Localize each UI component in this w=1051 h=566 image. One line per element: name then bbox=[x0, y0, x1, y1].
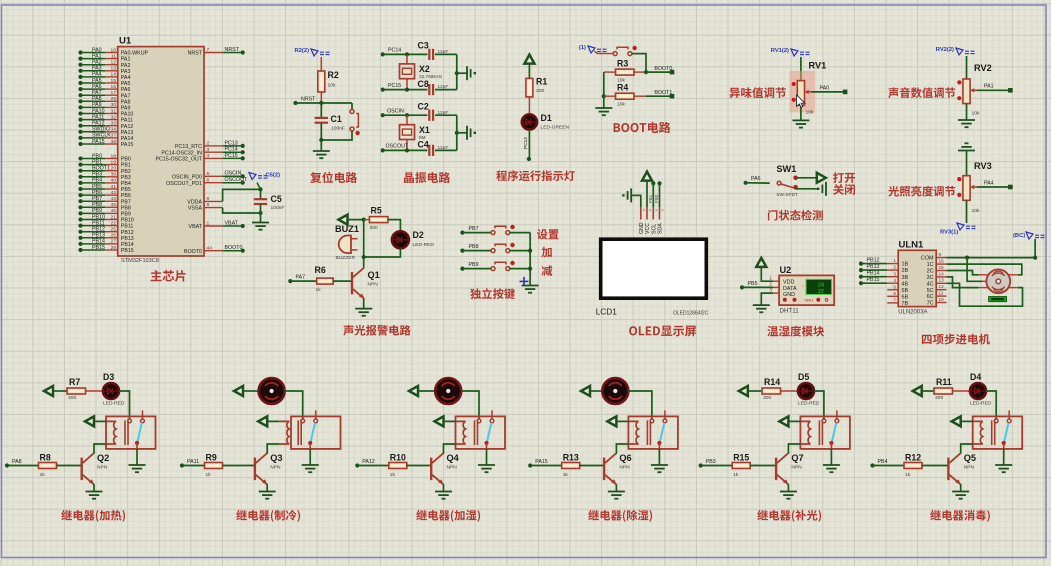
junction X1 bottom bbox=[405, 148, 409, 152]
wire GND bbox=[761, 293, 773, 305]
ground relay 继电器(除湿) bbox=[651, 465, 668, 472]
svg-text:PA15: PA15 bbox=[121, 142, 134, 148]
wire motor to relay bbox=[285, 391, 303, 419]
resistor R1 bbox=[526, 78, 533, 97]
wire ULN1 pin 2B stub bbox=[887, 269, 898, 271]
svg-text:R10: R10 bbox=[390, 452, 406, 462]
svg-text:PA0: PA0 bbox=[820, 85, 830, 91]
wire coil to collector bbox=[616, 444, 628, 454]
ground Q1 bbox=[355, 309, 372, 316]
wire VSSA to C5 bottom bbox=[223, 208, 261, 213]
wire LED to relay bbox=[119, 391, 130, 419]
ground reset circuit bbox=[313, 151, 330, 158]
svg-text:DATA: DATA bbox=[783, 286, 797, 292]
svg-text:PC15: PC15 bbox=[225, 153, 238, 159]
svg-text:PB6: PB6 bbox=[92, 190, 102, 196]
label 异味值调节 (odour adjust) bbox=[730, 87, 786, 98]
svg-text:4: 4 bbox=[893, 278, 896, 283]
svg-text:NPN: NPN bbox=[97, 464, 108, 470]
svg-text:PB10: PB10 bbox=[92, 214, 105, 220]
wire U1 pin NRST bbox=[204, 52, 223, 54]
svg-text:32: 32 bbox=[111, 114, 117, 120]
wire U1 pin PA6 bbox=[81, 88, 106, 90]
label BOOT电路 (boot circuit) bbox=[614, 122, 671, 133]
wire R5 to D2 bbox=[388, 220, 400, 232]
transistor Q2 bbox=[80, 458, 82, 481]
svg-text:PA6: PA6 bbox=[121, 87, 131, 93]
svg-text:15: 15 bbox=[111, 78, 117, 84]
svg-text:19: 19 bbox=[111, 159, 117, 165]
power arrow 继电器(加湿) top bbox=[409, 386, 418, 396]
svg-text:RV3: RV3 bbox=[974, 161, 992, 171]
power arrow 继电器(制冷) top bbox=[234, 386, 243, 396]
label 光照亮度调节 (light adjust) bbox=[888, 186, 955, 197]
svg-text:PC14: PC14 bbox=[225, 147, 238, 153]
svg-text:1k: 1k bbox=[733, 472, 739, 478]
power arrow coil 继电器(补光) bbox=[779, 416, 788, 426]
ground emitter 继电器(加热) bbox=[86, 492, 103, 499]
wire PA7 to R6 bbox=[290, 280, 316, 282]
wire arrow to R bbox=[54, 390, 68, 392]
svg-text:PA10: PA10 bbox=[121, 112, 134, 118]
ground OLED bbox=[622, 188, 631, 202]
node PA4 terminal bbox=[1008, 185, 1013, 190]
wire X2 ground rail bbox=[456, 54, 458, 89]
svg-text:3C: 3C bbox=[927, 275, 934, 281]
node PC15 bbox=[241, 156, 245, 160]
svg-text:BUZ1: BUZ1 bbox=[335, 224, 359, 234]
node PB9 bbox=[460, 267, 464, 271]
svg-text:5B: 5B bbox=[902, 288, 909, 294]
potentiometer RV1 bbox=[792, 81, 812, 106]
svg-text:PA2: PA2 bbox=[92, 60, 102, 66]
wire R2 top pin bbox=[320, 57, 322, 71]
wire C2 to rail bbox=[435, 114, 457, 116]
wire arrow to R bbox=[922, 390, 934, 392]
svg-text:13: 13 bbox=[111, 66, 117, 72]
wire to C1 bbox=[320, 103, 322, 117]
svg-text:BUZZER: BUZZER bbox=[336, 255, 356, 261]
svg-text:NPN: NPN bbox=[368, 282, 379, 288]
wire R2 bottom pin bbox=[320, 92, 322, 103]
wire C5 top lead bbox=[260, 189, 262, 198]
svg-text:20: 20 bbox=[111, 166, 117, 172]
node VBAT bbox=[241, 224, 245, 228]
node PA11 bbox=[180, 463, 184, 467]
wire arrow to motor bbox=[419, 390, 436, 392]
wire COM rail bbox=[947, 257, 1036, 259]
svg-text:Q5: Q5 bbox=[964, 453, 976, 463]
svg-text:15: 15 bbox=[939, 265, 945, 270]
resistor R12 bbox=[904, 463, 922, 469]
wire motor centre stub bbox=[982, 280, 988, 282]
svg-text:PA12: PA12 bbox=[121, 124, 134, 130]
wire R3/R4 common bbox=[603, 72, 605, 108]
wire PA11 to resistor bbox=[182, 465, 205, 467]
node SWCLK bbox=[78, 136, 82, 140]
node OLED SCL bbox=[651, 181, 655, 185]
svg-text:PA8: PA8 bbox=[121, 99, 131, 105]
LED D2 bbox=[392, 231, 409, 248]
svg-text:11: 11 bbox=[111, 53, 116, 59]
node PB14 bbox=[78, 242, 82, 246]
svg-text:GND: GND bbox=[783, 292, 795, 298]
resistor R8 bbox=[39, 463, 57, 469]
wire switch NC to ground bbox=[796, 187, 817, 189]
power arrow 打开 bbox=[817, 173, 826, 183]
wire PB9 to key bbox=[462, 268, 491, 270]
node BOOT0 terminal bbox=[670, 70, 675, 75]
wire ULN1 pin 6B stub bbox=[887, 295, 898, 297]
wire emitter to ground bbox=[266, 484, 268, 491]
wire relay contact to ground bbox=[309, 449, 311, 465]
svg-text:14: 14 bbox=[111, 72, 117, 78]
svg-text:PB1: PB1 bbox=[648, 194, 653, 203]
svg-text:R15: R15 bbox=[733, 452, 749, 462]
svg-text:NPN: NPN bbox=[791, 464, 802, 470]
svg-text:OSCIN_PD0: OSCIN_PD0 bbox=[172, 174, 202, 180]
wire C5 net stub bbox=[257, 183, 261, 190]
wire buzzer rail bbox=[363, 220, 365, 266]
node PC13 terminal bbox=[527, 157, 531, 161]
node PA1 bbox=[78, 57, 82, 61]
wire PB5 to DATA bbox=[742, 286, 773, 288]
wire U1 pin OSCOUT_PD1 bbox=[204, 182, 223, 184]
wire PB15 to ULN1 bbox=[861, 282, 887, 284]
svg-text:Q1: Q1 bbox=[368, 270, 380, 280]
wire ULN1 pin 1B stub bbox=[887, 263, 898, 265]
svg-text:(1): (1) bbox=[579, 45, 586, 51]
junction COM bbox=[965, 256, 969, 260]
node PB7 bbox=[78, 199, 82, 203]
svg-text:PB7: PB7 bbox=[92, 196, 102, 202]
push button key 3 bbox=[491, 262, 510, 270]
wire key 2 to bus bbox=[510, 250, 530, 252]
wire U1 pin SWCLK bbox=[81, 137, 106, 139]
wire U1 pin VSSA bbox=[204, 207, 223, 209]
svg-text:PB12: PB12 bbox=[867, 257, 880, 263]
wire relay contact to ground bbox=[658, 449, 660, 465]
node PB4 bbox=[870, 463, 874, 467]
node PA6 bbox=[78, 87, 82, 91]
svg-text:PB9: PB9 bbox=[121, 212, 131, 218]
wire to reset button bbox=[351, 103, 353, 110]
svg-text:1: 1 bbox=[769, 275, 772, 280]
svg-text:NPN: NPN bbox=[619, 464, 630, 470]
svg-text:PA6: PA6 bbox=[751, 176, 761, 182]
wire R4 left pin bbox=[604, 95, 616, 97]
svg-text:C3: C3 bbox=[418, 41, 429, 51]
crystal X2 bbox=[400, 64, 415, 79]
svg-text:PB12: PB12 bbox=[92, 227, 105, 233]
node PA6 bbox=[744, 181, 748, 185]
ground relay 继电器(制冷) bbox=[302, 465, 319, 472]
svg-text:NPN: NPN bbox=[270, 464, 281, 470]
wire RV1 top bbox=[800, 57, 802, 81]
svg-text:PA4: PA4 bbox=[121, 75, 131, 81]
wire X1 top pin bbox=[406, 115, 408, 125]
svg-text:27: 27 bbox=[818, 289, 824, 295]
svg-text:PB4: PB4 bbox=[92, 178, 102, 184]
svg-text:1k: 1k bbox=[390, 472, 396, 478]
label 设置 (set) bbox=[537, 229, 559, 239]
svg-text:LED-RED: LED-RED bbox=[103, 401, 125, 407]
wire U1 pin PC15-OSC32_OUT bbox=[204, 157, 223, 159]
svg-text:RV1: RV1 bbox=[809, 61, 827, 71]
svg-text:NRST: NRST bbox=[188, 51, 203, 57]
ground RV1 bbox=[792, 120, 809, 127]
push button key 2 bbox=[491, 244, 510, 252]
node PB0 bbox=[78, 156, 82, 160]
LED D4 bbox=[970, 383, 986, 399]
wire relay contact to ground bbox=[136, 449, 138, 465]
wire PB7 to key bbox=[462, 232, 491, 234]
svg-text:5: 5 bbox=[893, 284, 896, 289]
node PA4 bbox=[78, 75, 82, 79]
svg-text:PA5: PA5 bbox=[92, 78, 102, 84]
node PB6 bbox=[78, 193, 82, 197]
node PB14 bbox=[859, 275, 863, 279]
LCD1 OLED display body bbox=[601, 239, 707, 298]
node PA12 bbox=[355, 463, 359, 467]
svg-text:29: 29 bbox=[111, 96, 117, 102]
svg-text:PC14-OSC32_IN: PC14-OSC32_IN bbox=[161, 150, 202, 156]
svg-text:SW-SPDT: SW-SPDT bbox=[776, 192, 798, 197]
power arrow coil 继电器(加湿) bbox=[435, 416, 444, 426]
svg-text:SDA: SDA bbox=[658, 223, 664, 234]
wire U1 pin SWDIO bbox=[81, 131, 106, 133]
svg-text:ULN1: ULN1 bbox=[899, 240, 925, 251]
svg-text:PA14: PA14 bbox=[121, 136, 134, 142]
node PB4 bbox=[78, 181, 82, 185]
svg-text:D3: D3 bbox=[103, 372, 114, 382]
svg-text:R7: R7 bbox=[69, 377, 80, 387]
wire PB14 to ULN1 bbox=[861, 276, 887, 278]
svg-text:RV1(2): RV1(2) bbox=[771, 48, 789, 54]
label 继电器(加热) bbox=[61, 510, 125, 522]
node PB15 bbox=[859, 281, 863, 285]
wire arrow to junction bbox=[348, 219, 364, 221]
resistor R14 bbox=[762, 388, 781, 394]
svg-text:12pF: 12pF bbox=[438, 110, 449, 115]
origin marker (blue cross) bbox=[520, 277, 529, 286]
wire ULN1 pin 5C stub bbox=[936, 289, 946, 291]
wire key 3 to bus bbox=[510, 268, 530, 270]
svg-text:PB15: PB15 bbox=[92, 245, 105, 251]
junction C5 top bbox=[258, 187, 262, 191]
wire 2C to motor bbox=[947, 271, 979, 275]
svg-text:4C: 4C bbox=[927, 281, 934, 287]
svg-text:Q3: Q3 bbox=[270, 453, 282, 463]
svg-text:38: 38 bbox=[111, 139, 117, 145]
svg-text:PB1: PB1 bbox=[121, 163, 131, 169]
wire to BOOT0 terminal bbox=[646, 71, 672, 73]
wire coil to collector bbox=[94, 444, 106, 454]
wire relay contact to ground bbox=[486, 449, 488, 465]
transistor Q1 bbox=[351, 272, 353, 295]
svg-text:6: 6 bbox=[207, 177, 210, 183]
svg-text:PC13: PC13 bbox=[523, 137, 528, 149]
wire U1 pin PA10 bbox=[81, 113, 106, 115]
net label (BC) flag bbox=[1026, 232, 1045, 239]
wire to ground X2 bbox=[457, 72, 467, 74]
node PA5 bbox=[78, 81, 82, 85]
svg-text:D2: D2 bbox=[413, 230, 424, 240]
svg-text:PA2: PA2 bbox=[121, 63, 131, 69]
svg-text:U2: U2 bbox=[780, 265, 792, 275]
resistor R3 bbox=[616, 69, 635, 75]
wire C8 to rail bbox=[435, 89, 457, 91]
label 关闭 (closed) bbox=[833, 184, 855, 195]
wire C4 to rail bbox=[435, 149, 457, 151]
wire to BOOT1 terminal bbox=[646, 95, 672, 97]
ground relay 继电器消毒) bbox=[995, 465, 1012, 472]
svg-text:R2(2): R2(2) bbox=[295, 48, 310, 54]
wire U1 pin PB10 bbox=[81, 219, 106, 221]
wire R5 left pin bbox=[364, 219, 370, 221]
wire arrow to R bbox=[748, 390, 762, 392]
node PA9 bbox=[78, 105, 82, 109]
label 程序运行指示灯 (run indicator) bbox=[496, 170, 575, 181]
svg-text:R8: R8 bbox=[40, 452, 51, 462]
junction C1 bottom bbox=[319, 138, 323, 142]
label 继电器(补光) bbox=[757, 510, 821, 522]
junction X1 top bbox=[405, 113, 409, 117]
svg-text:PA11: PA11 bbox=[92, 114, 104, 120]
wire resistor to base bbox=[750, 465, 775, 467]
svg-text:PC15-OSC32_OUT: PC15-OSC32_OUT bbox=[155, 157, 202, 163]
wire coil to collector bbox=[267, 444, 279, 454]
wire LED to relay bbox=[814, 391, 824, 419]
svg-text:OSCOUT_PD1: OSCOUT_PD1 bbox=[166, 181, 202, 187]
wire PB4 to resistor bbox=[873, 465, 905, 467]
relay 继电器(制冷) bbox=[279, 410, 340, 449]
wire U1 pin PA4 bbox=[81, 76, 106, 78]
svg-text:16: 16 bbox=[111, 84, 117, 90]
svg-text:LED-RED: LED-RED bbox=[798, 401, 820, 407]
wire emitter to ground bbox=[960, 484, 962, 491]
wire arrow to coil bbox=[268, 420, 280, 422]
svg-text:VCC: VCC bbox=[645, 223, 651, 234]
wire emitter to ground bbox=[615, 484, 617, 491]
motor 继电器(制冷) bbox=[259, 378, 285, 404]
power arrow VCC bbox=[524, 55, 534, 64]
svg-text:100nF: 100nF bbox=[271, 205, 285, 211]
svg-text:PB5: PB5 bbox=[92, 184, 102, 190]
svg-text:PA3: PA3 bbox=[92, 66, 102, 72]
wire motor UR stub bbox=[1009, 274, 1018, 276]
buzzer BUZ1 bbox=[339, 236, 358, 254]
svg-text:NRST: NRST bbox=[301, 96, 316, 102]
svg-text:LED-RED: LED-RED bbox=[413, 242, 435, 248]
svg-text:26: 26 bbox=[111, 233, 117, 239]
wire motor to relay bbox=[628, 391, 652, 419]
wire RV2 bottom bbox=[966, 104, 968, 120]
wire PB12 to ULN1 bbox=[861, 263, 887, 265]
svg-text:SW1: SW1 bbox=[776, 164, 796, 174]
wire RV1 wiper to PA0 bbox=[811, 91, 845, 93]
svg-text:PA7: PA7 bbox=[296, 274, 306, 280]
svg-text:NPN: NPN bbox=[964, 464, 975, 470]
node PB3 bbox=[78, 175, 82, 179]
svg-text:9: 9 bbox=[939, 252, 942, 257]
wire motor UL stub bbox=[979, 274, 989, 276]
svg-text:16: 16 bbox=[939, 259, 945, 264]
svg-text:10k: 10k bbox=[806, 110, 814, 116]
transistor Q7 bbox=[775, 458, 777, 481]
node PB7 bbox=[460, 231, 464, 235]
wire U1 pin PB5 bbox=[81, 188, 106, 190]
potentiometer RV3 bbox=[957, 176, 977, 201]
resistor R10 bbox=[389, 463, 407, 469]
svg-text:28: 28 bbox=[111, 245, 117, 251]
wire OSCOUT to C4 bbox=[383, 149, 428, 151]
svg-text:33: 33 bbox=[111, 121, 117, 127]
svg-text:5: 5 bbox=[207, 171, 210, 177]
svg-text:PA9: PA9 bbox=[121, 106, 131, 112]
LED D3 bbox=[103, 383, 119, 399]
power arrow coil 继电器(制冷) bbox=[258, 416, 267, 426]
node PC14 bbox=[381, 52, 385, 56]
motor stepper bbox=[986, 269, 1010, 293]
motor 继电器(加湿) bbox=[435, 378, 461, 404]
node PB8 bbox=[78, 205, 82, 209]
capacitor C4 bbox=[429, 145, 433, 156]
resistor R15 bbox=[732, 463, 750, 469]
svg-text:24: 24 bbox=[818, 282, 824, 288]
label 晶振电路 (crystal circuit) bbox=[404, 172, 450, 183]
svg-text:300: 300 bbox=[370, 225, 378, 231]
wire U1 pin PC14-OSC32_IN bbox=[204, 151, 223, 153]
wire U1 pin PC13_RTC bbox=[204, 145, 223, 147]
svg-text:PA15: PA15 bbox=[92, 139, 105, 145]
label 复位电路 (reset circuit) bbox=[310, 172, 357, 183]
svg-text:12: 12 bbox=[939, 284, 945, 289]
resistor R7 bbox=[67, 388, 86, 394]
label 门状态检测 (door state) bbox=[768, 210, 823, 221]
svg-text:PB15: PB15 bbox=[121, 248, 134, 254]
svg-text:PB11: PB11 bbox=[92, 220, 105, 226]
junction X2 top bbox=[405, 52, 409, 56]
svg-text:31: 31 bbox=[111, 108, 117, 114]
net label R2(2) bbox=[311, 49, 330, 56]
wire U1 pin PB11 bbox=[81, 225, 106, 227]
wire RV2 top bbox=[966, 56, 968, 79]
wire U1 pin OSCIN_PD0 bbox=[204, 175, 223, 177]
svg-text:PA12: PA12 bbox=[362, 459, 375, 465]
svg-text:OLED12864I2C: OLED12864I2C bbox=[673, 311, 709, 317]
svg-text:BOOT1: BOOT1 bbox=[92, 166, 110, 172]
node OSCIN bbox=[241, 174, 245, 178]
svg-text:RV3(1): RV3(1) bbox=[940, 230, 958, 236]
ground X2 bbox=[467, 66, 476, 80]
svg-text:Q6: Q6 bbox=[619, 453, 631, 463]
svg-text:LCD1: LCD1 bbox=[596, 307, 618, 317]
label 温湿度模块 (temp/humidity) bbox=[767, 326, 824, 337]
wire X2 bottom pin bbox=[406, 79, 408, 90]
svg-text:3B: 3B bbox=[902, 275, 909, 281]
wire C1 to bottom rail bbox=[320, 123, 322, 140]
ground keys bbox=[522, 286, 539, 293]
svg-text:Q7: Q7 bbox=[791, 453, 803, 463]
ground emitter 继电器(除湿) bbox=[608, 492, 625, 499]
wire U1 pin PB9 bbox=[81, 212, 106, 214]
svg-text:NRST: NRST bbox=[225, 47, 240, 53]
node SWDIO bbox=[78, 130, 82, 134]
svg-text:PA6: PA6 bbox=[92, 84, 102, 90]
svg-text:OSCOUT: OSCOUT bbox=[225, 177, 248, 183]
svg-text:12: 12 bbox=[111, 60, 117, 66]
